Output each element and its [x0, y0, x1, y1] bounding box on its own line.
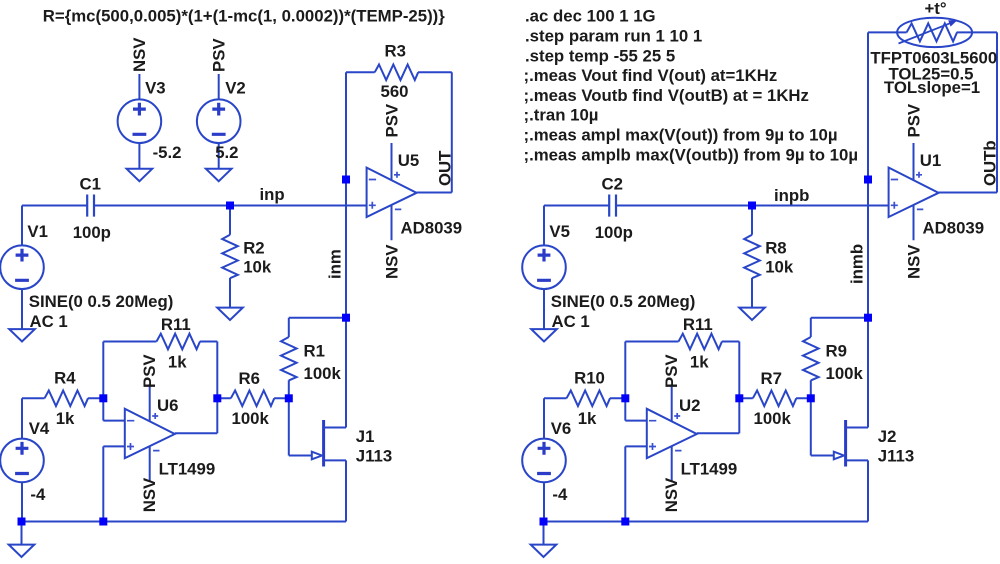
svg-text:C2: C2	[602, 175, 623, 194]
svg-text:inm: inm	[325, 249, 344, 279]
svg-text:R11: R11	[161, 315, 191, 334]
svg-text:R1: R1	[304, 342, 325, 361]
svg-text:100p: 100p	[73, 223, 111, 242]
svg-text:V6: V6	[551, 419, 572, 438]
svg-text:NSV: NSV	[130, 37, 149, 72]
svg-text:V4: V4	[29, 419, 50, 438]
svg-text:10k: 10k	[243, 257, 272, 276]
svg-text:PSV: PSV	[904, 103, 923, 137]
svg-text:+t°: +t°	[925, 0, 947, 18]
svg-text:inmb: inmb	[847, 244, 866, 284]
svg-text:;.meas amplb max(V(outb)) from: ;.meas amplb max(V(outb)) from 9µ to 10µ	[524, 145, 859, 164]
svg-text:C1: C1	[80, 175, 101, 194]
svg-text:NSV: NSV	[382, 244, 401, 279]
svg-text:.ac dec 100 1 1G: .ac dec 100 1 1G	[525, 7, 656, 26]
svg-text:100k: 100k	[232, 409, 270, 428]
svg-text:R9: R9	[826, 342, 847, 361]
svg-text:1k: 1k	[578, 409, 597, 428]
svg-text:100k: 100k	[826, 364, 864, 383]
svg-text:5.2: 5.2	[215, 143, 238, 162]
svg-text:inp: inp	[260, 185, 285, 204]
svg-text:-4: -4	[30, 485, 46, 504]
svg-text:U1: U1	[920, 151, 941, 170]
svg-text:NSV: NSV	[904, 244, 923, 279]
svg-text:J2: J2	[878, 427, 897, 446]
svg-text:;.meas Vout find V(out) at=1KH: ;.meas Vout find V(out) at=1KHz	[524, 66, 778, 85]
svg-text:R11: R11	[683, 315, 713, 334]
svg-text:R3: R3	[385, 42, 406, 61]
svg-text:-4: -4	[552, 485, 568, 504]
svg-text:AC 1: AC 1	[552, 312, 590, 331]
svg-text:100k: 100k	[754, 409, 792, 428]
svg-text:J113: J113	[878, 447, 914, 466]
svg-text:J1: J1	[356, 427, 375, 446]
svg-text:AD8039: AD8039	[401, 218, 463, 237]
svg-text:1k: 1k	[690, 353, 709, 372]
svg-text:OUT: OUT	[435, 150, 454, 186]
svg-text:OUTb: OUTb	[980, 140, 999, 186]
svg-text:AC 1: AC 1	[30, 312, 68, 331]
svg-text:R10: R10	[574, 368, 605, 387]
svg-text:.step temp -55 25 5: .step temp -55 25 5	[525, 46, 675, 65]
svg-text:10k: 10k	[765, 257, 794, 276]
svg-text:100p: 100p	[595, 223, 633, 242]
svg-text:LT1499: LT1499	[681, 459, 738, 478]
svg-text:PSV: PSV	[140, 354, 159, 388]
svg-text:J113: J113	[356, 447, 392, 466]
svg-text:AD8039: AD8039	[923, 218, 985, 237]
svg-text:R2: R2	[243, 239, 264, 258]
svg-text:PSV: PSV	[382, 103, 401, 137]
svg-text:NSV: NSV	[140, 477, 159, 512]
svg-text:SINE(0 0.5 20Meg): SINE(0 0.5 20Meg)	[29, 292, 174, 311]
svg-text:U5: U5	[398, 151, 419, 170]
svg-text:V3: V3	[145, 79, 166, 98]
svg-text:PSV: PSV	[662, 354, 681, 388]
svg-text:-5.2: -5.2	[153, 143, 182, 162]
svg-text:R4: R4	[54, 368, 76, 387]
svg-text:SINE(0 0.5 20Meg): SINE(0 0.5 20Meg)	[551, 292, 696, 311]
svg-text:inpb: inpb	[774, 186, 809, 205]
svg-text:V5: V5	[549, 222, 570, 241]
svg-text:1k: 1k	[56, 409, 75, 428]
svg-text:R7: R7	[761, 369, 782, 388]
svg-text:1k: 1k	[168, 353, 187, 372]
svg-text:NSV: NSV	[662, 477, 681, 512]
svg-text:R8: R8	[765, 239, 786, 258]
svg-text:;.tran 10µ: ;.tran 10µ	[524, 106, 599, 125]
svg-text:R={mc(500,0.005)*(1+(1-mc(1, 0: R={mc(500,0.005)*(1+(1-mc(1, 0.0002))*(T…	[43, 6, 445, 25]
svg-text:R6: R6	[239, 369, 260, 388]
svg-text:560: 560	[381, 82, 409, 101]
svg-text:100k: 100k	[304, 364, 342, 383]
svg-text:V1: V1	[27, 222, 48, 241]
svg-text:LT1499: LT1499	[159, 459, 216, 478]
svg-text:U6: U6	[157, 396, 178, 415]
svg-text:V2: V2	[225, 79, 246, 98]
svg-text:PSV: PSV	[210, 38, 229, 72]
svg-text:U2: U2	[679, 396, 700, 415]
svg-text:TOLslope=1: TOLslope=1	[884, 78, 980, 97]
svg-text:;.meas Voutb find V(outB) at =: ;.meas Voutb find V(outB) at = 1KHz	[524, 86, 809, 105]
svg-text:;.meas ampl max(V(out)) from 9: ;.meas ampl max(V(out)) from 9µ to 10µ	[524, 126, 838, 145]
svg-text:.step param run 1 10 1: .step param run 1 10 1	[525, 27, 702, 46]
